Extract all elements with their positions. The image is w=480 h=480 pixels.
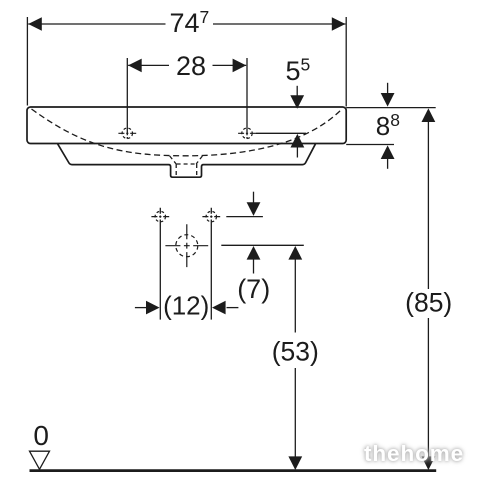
svg-text:0: 0 bbox=[33, 420, 49, 451]
svg-text:(12): (12) bbox=[163, 291, 209, 321]
svg-text:(53): (53) bbox=[272, 337, 319, 367]
svg-text:(7): (7) bbox=[237, 274, 270, 304]
svg-text:thehome: thehome bbox=[364, 441, 464, 466]
svg-text:(85): (85) bbox=[405, 288, 452, 318]
svg-text:28: 28 bbox=[176, 51, 206, 81]
